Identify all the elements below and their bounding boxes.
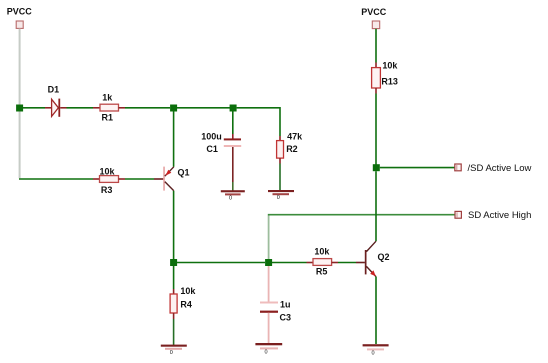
wire J2 down to Q1 emitter — [173, 111, 175, 167]
label D1 — [48, 85, 60, 95]
wire R5 to Q2 base — [338, 262, 356, 264]
svg-text:Q1: Q1 — [178, 167, 190, 177]
wire C3 to ground (faded) — [268, 313, 270, 343]
wire J3 to top corner of R2 branch — [237, 108, 280, 136]
resistor R5 — [307, 259, 339, 266]
label C1 — [206, 144, 218, 154]
wire SD-High corner down to J5 (faded) — [268, 216, 270, 260]
wire J5 to R5 — [272, 262, 307, 264]
wire Q1 collector down to node J4 — [173, 191, 175, 260]
label 1k (R1 value) — [102, 93, 113, 103]
label 47k (R2 value) — [287, 132, 303, 142]
svg-text:0: 0 — [372, 351, 375, 357]
svg-text:PVCC: PVCC — [361, 7, 387, 17]
label R5 — [316, 267, 328, 277]
svg-text:Q2: Q2 — [378, 252, 390, 262]
node J1 junction — [16, 105, 23, 112]
label 1u (C3 value) — [280, 299, 291, 309]
wire J3 down to capacitor C1 — [232, 111, 234, 139]
port /SD Active Low — [455, 164, 461, 171]
resistor R1 — [93, 104, 125, 111]
ground under C1 — [221, 190, 245, 201]
wire J4 down to resistor R4 — [173, 266, 175, 294]
svg-text:0: 0 — [170, 350, 173, 356]
svg-text:10k: 10k — [382, 61, 398, 71]
svg-text:R1: R1 — [102, 112, 114, 122]
node J3 junction — [230, 105, 237, 112]
label R3 — [101, 185, 113, 195]
wire C1 to ground — [232, 147, 234, 191]
wire J4 to node J5 — [177, 262, 265, 264]
svg-text:R4: R4 — [180, 300, 192, 310]
label Q2 — [378, 252, 390, 262]
wire J1 down to base-row corner (faded) — [19, 111, 21, 178]
wire Q2 emitter down to ground — [375, 277, 377, 344]
svg-text:100u: 100u — [201, 132, 222, 142]
svg-text:0: 0 — [229, 195, 232, 201]
transistor Q1 (PNP) — [154, 167, 174, 191]
ground under C3 — [255, 343, 282, 355]
capacitor C3 — [260, 302, 278, 313]
svg-text:0: 0 — [277, 195, 280, 201]
label PVCC (right) — [361, 7, 387, 17]
svg-text:10k: 10k — [180, 286, 196, 296]
diode D1 — [45, 99, 67, 117]
label R4 — [180, 300, 192, 310]
power port PVCC (right) — [372, 21, 379, 29]
svg-text:C3: C3 — [280, 313, 292, 323]
svg-text:1k: 1k — [102, 93, 113, 103]
label SD Active High — [468, 210, 531, 221]
label R2 — [286, 144, 298, 154]
wire J6 down to Q2 collector (crosses SD Active High) — [375, 171, 377, 241]
label R1 — [102, 112, 114, 122]
label /SD Active Low — [468, 163, 532, 174]
svg-text:R13: R13 — [381, 76, 398, 86]
node J6 junction — [373, 164, 380, 171]
wire R2 to ground — [279, 164, 281, 191]
node J5 junction — [265, 259, 272, 266]
wire PVCC port down to R13 — [375, 29, 377, 68]
wire SD Active High net (corner to port) — [268, 214, 455, 216]
svg-text:R3: R3 — [101, 185, 113, 195]
svg-text:D1: D1 — [48, 85, 60, 95]
ground under R4 — [161, 345, 187, 356]
wire J5 down to capacitor C3 (faded) — [268, 266, 270, 302]
power port PVCC (left) — [16, 21, 23, 28]
wire corner down to resistor R2 — [279, 136, 281, 141]
wire J1 to diode anode — [23, 107, 45, 109]
label 10k (R4 value) — [180, 286, 196, 296]
wire R4 to ground — [173, 319, 175, 345]
svg-text:PVCC: PVCC — [7, 6, 33, 16]
label 10k (R13 value) — [382, 61, 398, 71]
transistor Q2 (NPN) — [356, 241, 376, 276]
svg-text:10k: 10k — [100, 167, 116, 177]
svg-text:R5: R5 — [316, 267, 328, 277]
ground under R2 — [268, 190, 294, 201]
svg-text:/SD Active Low: /SD Active Low — [468, 163, 532, 174]
svg-text:0: 0 — [265, 349, 268, 355]
svg-text:1u: 1u — [280, 299, 291, 309]
svg-text:R2: R2 — [286, 144, 298, 154]
capacitor C1 — [224, 138, 241, 147]
node J4 junction — [170, 259, 177, 266]
label Q1 — [178, 167, 190, 177]
wire R3 to Q1 base — [125, 178, 154, 180]
label 10k (R3 value) — [100, 167, 116, 177]
ground under Q2 — [363, 344, 389, 356]
resistor R13 — [372, 68, 381, 94]
label R13 — [381, 76, 398, 86]
resistor R2 — [277, 141, 284, 164]
svg-text:10k: 10k — [314, 246, 330, 256]
wire R13 down to node J6 — [375, 94, 377, 165]
wire base-row corner to R3 — [19, 178, 93, 180]
wire diode to R1 — [67, 107, 94, 109]
resistor R4 — [170, 294, 177, 319]
label 10k (R5 value) — [314, 246, 330, 256]
label C3 — [280, 313, 292, 323]
resistor R3 — [93, 176, 125, 183]
wire J2 to node J3 — [177, 107, 230, 109]
node J2 junction — [170, 105, 177, 112]
label 100u (C1 value) — [201, 132, 222, 142]
svg-text:47k: 47k — [287, 132, 303, 142]
svg-text:C1: C1 — [206, 144, 218, 154]
port SD Active High — [455, 211, 461, 218]
label PVCC (left) — [7, 6, 33, 16]
wire J6 to /SD Active Low port — [380, 167, 455, 169]
wire PVCC port down to node J1 (faded) — [19, 29, 21, 105]
wire R1 to node J2 — [125, 107, 170, 109]
svg-text:SD Active High: SD Active High — [468, 210, 531, 221]
